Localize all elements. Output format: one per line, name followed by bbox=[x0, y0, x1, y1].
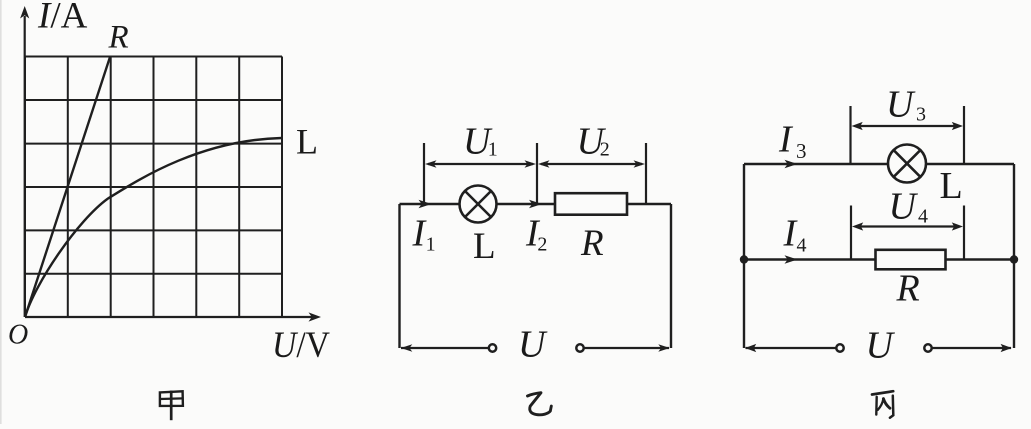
svg-text:R: R bbox=[580, 223, 604, 264]
caption 乙 bbox=[528, 393, 552, 415]
tick right bbox=[645, 143, 647, 204]
grid bbox=[25, 57, 282, 318]
svg-text:1: 1 bbox=[426, 234, 436, 256]
terminal circle left bbox=[489, 344, 496, 351]
current arrow I1 bbox=[419, 200, 432, 209]
y-axis arrowhead bbox=[20, 6, 29, 19]
tick U3 right bbox=[963, 106, 965, 164]
svg-text:L: L bbox=[296, 122, 318, 162]
dimension U3 bbox=[852, 122, 964, 130]
tick left bbox=[423, 143, 425, 204]
curve L bbox=[25, 138, 282, 317]
caption 丙 bbox=[872, 391, 893, 418]
svg-text:4: 4 bbox=[918, 206, 928, 228]
svg-text:U: U bbox=[866, 324, 896, 366]
tick U3 left bbox=[849, 106, 851, 164]
lamp L bbox=[888, 145, 926, 183]
dimension U4 bbox=[852, 222, 963, 230]
svg-text:U: U bbox=[886, 84, 916, 126]
x-axis arrowhead bbox=[309, 312, 322, 321]
caption 甲 bbox=[160, 391, 183, 421]
terminal circle right bbox=[576, 344, 583, 351]
wire right vertical bbox=[670, 204, 672, 348]
dimension U1 bbox=[425, 160, 536, 167]
svg-text:R: R bbox=[108, 20, 129, 56]
svg-text:3: 3 bbox=[796, 139, 807, 163]
wire top horizontal bbox=[400, 203, 672, 205]
svg-text:2: 2 bbox=[600, 139, 610, 161]
bottom U dimension left bbox=[401, 344, 488, 351]
wire right vertical bbox=[1013, 164, 1015, 348]
svg-text:R: R bbox=[896, 268, 920, 310]
svg-text:L: L bbox=[473, 226, 496, 267]
bottom U dimension left bbox=[745, 344, 836, 352]
junction dot right bbox=[1010, 255, 1018, 263]
svg-text:4: 4 bbox=[797, 235, 807, 257]
svg-text:1: 1 bbox=[488, 139, 498, 161]
current arrow I2 bbox=[529, 200, 542, 209]
terminal circle left bbox=[836, 344, 843, 351]
page edge smudge bbox=[0, 0, 2, 424]
svg-text:3: 3 bbox=[916, 104, 926, 126]
wire left vertical bbox=[743, 164, 745, 348]
current arrow I4 bbox=[785, 255, 798, 264]
svg-text:L: L bbox=[940, 165, 963, 207]
resistor R bbox=[876, 250, 946, 269]
svg-text:O: O bbox=[8, 320, 28, 351]
tick U4 left bbox=[850, 206, 852, 260]
x-axis bbox=[25, 316, 312, 318]
junction dot left bbox=[740, 255, 748, 263]
tick U4 right bbox=[963, 206, 965, 260]
terminal circle right bbox=[924, 344, 931, 351]
wire left vertical bbox=[398, 204, 400, 348]
svg-text:2: 2 bbox=[537, 234, 547, 256]
svg-text:U: U bbox=[518, 324, 548, 366]
svg-text:U/V: U/V bbox=[272, 325, 330, 366]
resistor R bbox=[555, 193, 627, 215]
bottom U dimension right bbox=[932, 344, 1012, 352]
line R bbox=[25, 57, 110, 317]
tick middle bbox=[536, 143, 538, 204]
bottom U dimension right bbox=[585, 344, 670, 351]
svg-text:I/A: I/A bbox=[37, 0, 88, 37]
wire lamp branch bbox=[744, 163, 1014, 165]
wire resistor branch bbox=[744, 258, 1014, 260]
lamp L bbox=[460, 186, 497, 223]
current arrow I3 bbox=[785, 160, 798, 169]
svg-text:U: U bbox=[889, 186, 919, 228]
y-axis bbox=[24, 16, 26, 317]
svg-text:I: I bbox=[778, 119, 794, 161]
dimension U2 bbox=[538, 160, 645, 167]
